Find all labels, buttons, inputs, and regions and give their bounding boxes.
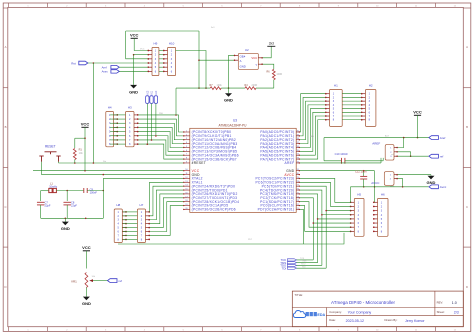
svg-text:U3: U3 (233, 118, 237, 122)
svg-text:Rst: Rst (103, 160, 107, 163)
svg-text:A12: A12 (146, 90, 149, 95)
svg-text:2023-05-12: 2023-05-12 (346, 319, 364, 323)
svg-text:REV:: REV: (437, 301, 444, 305)
svg-text:H5: H5 (357, 192, 361, 196)
svg-text:Aref: Aref (385, 135, 389, 138)
svg-text:VR1: VR1 (71, 280, 77, 284)
svg-text:3x3: 3x3 (269, 41, 274, 45)
svg-text:C11 100n: C11 100n (355, 169, 367, 173)
svg-text:Sheet:: Sheet: (437, 310, 445, 314)
svg-text:H10: H10 (169, 41, 175, 45)
svg-text:H8: H8 (116, 203, 120, 207)
svg-text:100k: 100k (217, 84, 223, 87)
svg-text:H7: H7 (140, 203, 144, 207)
svg-text:TDO: TDO (301, 264, 306, 266)
svg-text:TDI: TDI (282, 266, 287, 270)
svg-text:(PCINT30/OC2B/ICP)PD6: (PCINT30/OC2B/ICP)PD6 (192, 208, 236, 212)
svg-text:VCC: VCC (81, 121, 90, 126)
svg-text:22pF: 22pF (71, 204, 77, 208)
svg-text:C8: C8 (71, 200, 75, 204)
svg-text:AREF: AREF (285, 161, 295, 165)
svg-text:B: B (5, 125, 7, 129)
svg-text:Avcc: Avcc (440, 185, 447, 189)
svg-text:EDA: EDA (317, 313, 325, 317)
svg-text:RESET: RESET (45, 145, 56, 149)
svg-text:ref: ref (391, 153, 394, 156)
svg-text:C: C (466, 205, 468, 209)
svg-text:2/3: 2/3 (454, 310, 459, 314)
svg-text:VCC: VCC (413, 109, 422, 114)
svg-text:H6: H6 (381, 192, 385, 196)
svg-text:ATMEGA1284P-PU: ATMEGA1284P-PU (219, 123, 248, 127)
svg-text:OE#: OE# (240, 55, 246, 59)
svg-text:ATmega DIP40 - Microcontroller: ATmega DIP40 - Microcontroller (331, 300, 395, 305)
svg-text:Your Company: Your Company (348, 310, 372, 314)
svg-text:TDI: TDI (302, 266, 306, 268)
svg-text:Jerry Komor: Jerry Komor (405, 319, 425, 323)
svg-text:TCK: TCK (300, 258, 305, 260)
svg-text:C9: C9 (90, 187, 94, 191)
svg-text:TITLE:: TITLE: (295, 293, 304, 297)
svg-text:U2: U2 (245, 48, 249, 52)
svg-text:GND: GND (427, 180, 436, 185)
svg-text:A: A (5, 45, 7, 49)
svg-text:H9: H9 (154, 41, 158, 45)
svg-text:Avcc: Avcc (390, 184, 394, 187)
svg-text:1.0: 1.0 (452, 301, 457, 305)
svg-text:22pF: 22pF (45, 204, 51, 208)
svg-text:B: B (466, 125, 468, 129)
svg-text:10mHy: 10mHy (49, 186, 58, 189)
svg-text:VCC: VCC (82, 245, 91, 250)
svg-text:Drawn By:: Drawn By: (385, 318, 398, 322)
svg-text:GND: GND (129, 89, 138, 94)
svg-text:A: A (240, 59, 242, 63)
svg-text:TMS: TMS (302, 261, 307, 263)
svg-text:100R: 100R (276, 73, 282, 76)
svg-text:GND: GND (61, 226, 70, 231)
svg-text:Date:: Date: (329, 318, 336, 322)
svg-text:VCC: VCC (130, 32, 139, 37)
svg-text:A10: A10 (155, 90, 158, 95)
svg-text:Avss: Avss (102, 70, 109, 74)
svg-text:A: A (466, 45, 468, 49)
svg-text:#RESET: #RESET (192, 161, 206, 165)
svg-text:H1: H1 (334, 84, 338, 88)
svg-text:AVCC: AVCC (371, 181, 380, 185)
svg-text:220R: 220R (252, 84, 258, 87)
svg-text:C7: C7 (45, 200, 49, 204)
svg-text:Y: Y (255, 63, 257, 67)
svg-text:H3: H3 (128, 106, 132, 110)
svg-text:VCC: VCC (251, 56, 257, 60)
svg-text:GND: GND (82, 301, 91, 306)
svg-text:H4: H4 (108, 106, 112, 110)
svg-text:C10 100nF: C10 100nF (335, 152, 349, 156)
svg-text:H2: H2 (369, 84, 373, 88)
svg-text:ref: ref (119, 279, 123, 283)
svg-text:PD7(OC2A/PCINT31): PD7(OC2A/PCINT31) (258, 208, 295, 212)
svg-text:VCC: VCC (140, 49, 145, 51)
svg-text:Aref: Aref (440, 136, 446, 140)
svg-text:100nF: 100nF (90, 191, 98, 195)
svg-text:GND: GND (240, 65, 246, 69)
svg-text:ref: ref (440, 155, 444, 159)
svg-text:Company:: Company: (329, 310, 342, 314)
svg-text:D: D (4, 285, 6, 289)
svg-text:Rst: Rst (71, 61, 76, 65)
svg-text:D: D (466, 285, 468, 289)
svg-text:AREF: AREF (372, 141, 380, 145)
svg-text:C: C (4, 205, 6, 209)
svg-text:GND: GND (224, 98, 233, 103)
